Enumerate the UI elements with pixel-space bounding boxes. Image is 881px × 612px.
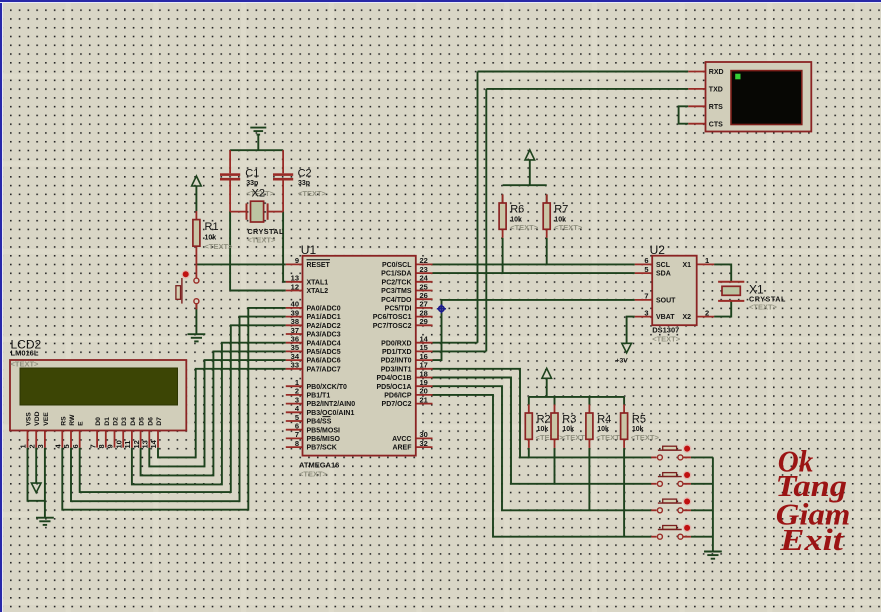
svg-text:3: 3 (644, 308, 648, 317)
svg-text:23: 23 (420, 265, 428, 274)
svg-text:40: 40 (291, 300, 299, 309)
svg-text:RS: RS (60, 416, 67, 426)
svg-text:27: 27 (420, 300, 428, 309)
svg-text:RXD: RXD (709, 69, 724, 76)
svg-text:C2: C2 (298, 168, 312, 180)
svg-text:TXD: TXD (709, 87, 723, 94)
svg-text:PC3/TMS: PC3/TMS (381, 288, 412, 295)
svg-text:8: 8 (295, 439, 299, 448)
svg-text:D0: D0 (95, 417, 102, 426)
svg-text:R1: R1 (205, 221, 219, 233)
svg-text:R6: R6 (510, 204, 524, 216)
svg-text:PA5/ADC5: PA5/ADC5 (307, 349, 341, 356)
svg-text:R5: R5 (632, 413, 646, 425)
svg-text:12: 12 (291, 282, 299, 291)
svg-text:PA7/ADC7: PA7/ADC7 (307, 366, 341, 373)
svg-text:<TEXT>: <TEXT> (749, 302, 778, 311)
svg-text:5: 5 (62, 444, 71, 448)
svg-text:<TEXT>: <TEXT> (298, 189, 327, 198)
svg-text:+3V: +3V (616, 358, 629, 365)
svg-text:PB0/XCK/T0: PB0/XCK/T0 (307, 384, 348, 391)
svg-text:PB5/MOSI: PB5/MOSI (307, 427, 341, 434)
svg-text:10k: 10k (632, 426, 644, 433)
svg-text:Exit: Exit (779, 522, 844, 557)
svg-text:PB3/OC0/AIN1: PB3/OC0/AIN1 (307, 410, 355, 417)
svg-text:X2: X2 (252, 188, 265, 200)
svg-text:6: 6 (71, 444, 80, 448)
svg-text:<TEXT>: <TEXT> (299, 470, 328, 479)
svg-text:16: 16 (420, 352, 428, 361)
svg-text:U2: U2 (650, 243, 666, 257)
svg-text:PB2/INT2/AIN0: PB2/INT2/AIN0 (307, 401, 356, 408)
svg-text:PC7/TOSC2: PC7/TOSC2 (373, 323, 412, 330)
svg-text:VSS: VSS (26, 412, 33, 426)
svg-text:X2: X2 (682, 314, 691, 321)
svg-text:15: 15 (420, 343, 428, 352)
svg-text:39: 39 (291, 308, 299, 317)
svg-text:35: 35 (291, 343, 299, 352)
svg-text:34: 34 (291, 352, 300, 361)
svg-text:PD4/OC1B: PD4/OC1B (376, 375, 411, 382)
svg-text:RW: RW (69, 414, 76, 426)
svg-text:21: 21 (420, 395, 428, 404)
svg-text:AVCC: AVCC (392, 436, 411, 443)
svg-text:D4: D4 (130, 417, 137, 426)
svg-text:<TEXT>: <TEXT> (11, 360, 40, 369)
svg-text:<TEXT>: <TEXT> (631, 433, 660, 442)
svg-text:14: 14 (149, 439, 158, 448)
svg-text:ATMEGA16: ATMEGA16 (299, 461, 339, 470)
svg-text:AREF: AREF (392, 445, 412, 452)
svg-text:6: 6 (295, 422, 299, 431)
svg-text:<TEXT>: <TEXT> (554, 223, 583, 232)
svg-text:R3: R3 (562, 413, 576, 425)
svg-text:7: 7 (644, 292, 648, 301)
svg-text:5: 5 (295, 413, 299, 422)
svg-text:SOUT: SOUT (656, 298, 676, 305)
svg-text:PD1/TXD: PD1/TXD (382, 349, 412, 356)
svg-text:7: 7 (295, 430, 299, 439)
svg-text:VDD: VDD (34, 411, 41, 425)
svg-text:36: 36 (291, 335, 299, 344)
svg-text:PC2/TCK: PC2/TCK (382, 279, 412, 286)
svg-text:29: 29 (420, 317, 428, 326)
svg-text:PA3/ADC3: PA3/ADC3 (307, 332, 341, 339)
svg-text:13: 13 (291, 274, 299, 283)
svg-text:PA0/ADC0: PA0/ADC0 (307, 306, 341, 313)
svg-text:13: 13 (141, 440, 150, 448)
svg-text:2: 2 (705, 308, 709, 317)
svg-text:X1: X1 (682, 262, 691, 269)
svg-text:17: 17 (420, 361, 428, 370)
svg-text:33p: 33p (298, 180, 310, 187)
svg-text:33p: 33p (246, 180, 258, 187)
svg-text:22: 22 (420, 256, 428, 265)
svg-text:PA1/ADC1: PA1/ADC1 (307, 314, 341, 321)
svg-text:10k: 10k (205, 235, 217, 242)
svg-text:19: 19 (420, 378, 428, 387)
svg-text:PC4/TDO: PC4/TDO (381, 297, 412, 304)
svg-text:D3: D3 (121, 417, 128, 426)
svg-text:D5: D5 (139, 417, 146, 426)
svg-text:3: 3 (36, 444, 45, 448)
svg-text:10k: 10k (537, 426, 549, 433)
svg-text:PC0/SCL: PC0/SCL (382, 262, 412, 269)
svg-text:<TEXT>: <TEXT> (247, 236, 276, 245)
svg-text:5: 5 (644, 265, 648, 274)
svg-text:RESET: RESET (307, 262, 331, 269)
svg-text:PD5/OC1A: PD5/OC1A (376, 384, 411, 391)
svg-text:U1: U1 (301, 243, 317, 257)
svg-text:24: 24 (420, 274, 429, 283)
svg-text:RTS: RTS (709, 104, 723, 111)
svg-text:30: 30 (420, 430, 428, 439)
svg-text:32: 32 (420, 439, 428, 448)
svg-text:D7: D7 (156, 417, 163, 426)
svg-text:XTAL2: XTAL2 (307, 288, 329, 295)
svg-text:37: 37 (291, 326, 299, 335)
svg-text:PD2/INT0: PD2/INT0 (381, 358, 412, 365)
svg-text:R7: R7 (554, 204, 568, 216)
svg-text:PC1/SDA: PC1/SDA (381, 271, 411, 278)
svg-text:3: 3 (295, 395, 299, 404)
svg-text:C1: C1 (245, 168, 259, 180)
svg-text:2: 2 (27, 444, 36, 448)
svg-text:D1: D1 (104, 417, 111, 426)
svg-text:14: 14 (420, 335, 429, 344)
svg-text:7: 7 (88, 444, 97, 448)
svg-text:SCL: SCL (656, 262, 671, 269)
svg-text:PD3/INT1: PD3/INT1 (381, 366, 412, 373)
svg-text:PB7/SCK: PB7/SCK (307, 445, 337, 452)
svg-text:PD7/OC2: PD7/OC2 (382, 401, 412, 408)
svg-text:<TEXT>: <TEXT> (536, 433, 565, 442)
svg-text:PA4/ADC4: PA4/ADC4 (307, 340, 341, 347)
svg-text:10k: 10k (597, 426, 609, 433)
svg-text:PB1/T1: PB1/T1 (307, 393, 331, 400)
svg-text:28: 28 (420, 308, 428, 317)
svg-text:E: E (78, 421, 85, 426)
svg-text:SDA: SDA (656, 271, 671, 278)
svg-text:R2: R2 (537, 413, 551, 425)
svg-text:1: 1 (705, 256, 709, 265)
svg-text:25: 25 (420, 282, 428, 291)
svg-text:<TEXT>: <TEXT> (652, 335, 681, 344)
svg-text:LM016L: LM016L (11, 349, 39, 358)
svg-text:PC6/TOSC1: PC6/TOSC1 (373, 314, 412, 321)
svg-text:CTS: CTS (709, 121, 723, 128)
svg-text:2: 2 (295, 387, 299, 396)
svg-text:PC5/TDI: PC5/TDI (385, 306, 412, 313)
svg-text:<TEXT>: <TEXT> (205, 242, 234, 251)
svg-text:PD6/ICP: PD6/ICP (384, 393, 412, 400)
svg-text:12: 12 (132, 440, 141, 448)
svg-text:10k: 10k (562, 426, 574, 433)
svg-text:6: 6 (644, 256, 648, 265)
svg-text:1: 1 (295, 378, 299, 387)
svg-text:<TEXT>: <TEXT> (510, 223, 539, 232)
svg-text:8: 8 (97, 444, 106, 448)
svg-text:10: 10 (114, 440, 123, 448)
svg-text:VBAT: VBAT (656, 314, 675, 321)
svg-text:PB4/SS: PB4/SS (307, 419, 332, 426)
svg-text:33: 33 (291, 361, 299, 370)
svg-text:26: 26 (420, 291, 428, 300)
svg-text:11: 11 (123, 441, 132, 449)
svg-text:PA2/ADC2: PA2/ADC2 (307, 323, 341, 330)
svg-text:38: 38 (291, 317, 299, 326)
svg-text:PD0/RXD: PD0/RXD (381, 340, 411, 347)
svg-text:DS1307: DS1307 (652, 326, 679, 335)
svg-text:D2: D2 (113, 417, 120, 426)
svg-text:18: 18 (420, 369, 428, 378)
svg-text:PA6/ADC6: PA6/ADC6 (307, 358, 341, 365)
svg-text:9: 9 (106, 444, 115, 448)
svg-text:20: 20 (420, 387, 428, 396)
svg-text:9: 9 (295, 256, 299, 265)
svg-text:VEE: VEE (43, 412, 50, 426)
svg-text:PB6/MISO: PB6/MISO (307, 436, 341, 443)
svg-text:D6: D6 (147, 417, 154, 426)
svg-text:XTAL1: XTAL1 (307, 279, 329, 286)
svg-text:R4: R4 (597, 413, 611, 425)
svg-text:1: 1 (19, 444, 28, 448)
